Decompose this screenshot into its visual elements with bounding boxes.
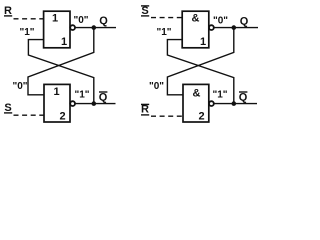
junction dot on Q wire (right latch) bbox=[232, 25, 237, 30]
junction dot on Q-bar wire (right latch) bbox=[232, 101, 237, 106]
wire: feedback Q to gate 2 input (right latch) bbox=[167, 28, 233, 95]
svg-text:"1": "1" bbox=[19, 27, 34, 38]
junction dot on Q wire (left latch) bbox=[92, 25, 97, 30]
wire: feedback Q-bar to gate 1 input (right latch) bbox=[167, 40, 233, 104]
svg-text:1: 1 bbox=[53, 86, 59, 98]
svg-text:S: S bbox=[4, 102, 11, 114]
NOR gate 1 box (left latch, top) bbox=[44, 11, 70, 48]
svg-text:"1": "1" bbox=[156, 27, 171, 38]
svg-text:Q: Q bbox=[99, 91, 108, 103]
svg-text:Q: Q bbox=[240, 15, 249, 27]
svg-text:1: 1 bbox=[52, 12, 58, 24]
svg-text:"1": "1" bbox=[212, 90, 227, 101]
svg-text:&: & bbox=[192, 12, 200, 24]
NOR gate 2 box (left latch, bottom) bbox=[44, 84, 70, 122]
inverter bubble, gate 1 output (right latch) bbox=[209, 25, 214, 30]
NAND gate 2 box (right latch, bottom) bbox=[183, 84, 209, 122]
NAND gate 1 box (right latch, top) bbox=[182, 11, 209, 48]
inverter bubble, gate 2 output (right latch) bbox=[209, 101, 214, 106]
junction dot on Q-bar wire (left latch) bbox=[92, 101, 97, 106]
wire: feedback Q-bar to gate 1 input (left latch) bbox=[28, 40, 93, 104]
wire: R input (dashed) to gate 1 bbox=[14, 18, 44, 20]
inverter bubble, gate 1 output (left latch) bbox=[70, 25, 75, 30]
wire: Q-bar output (right latch) bbox=[214, 103, 257, 105]
wire: feedback Q to gate 2 input (left latch) bbox=[28, 28, 94, 95]
inverter bubble, gate 2 output (left latch) bbox=[70, 101, 75, 106]
svg-text:Q: Q bbox=[239, 91, 248, 103]
wire: S-bar input (dashed) to right gate 1 bbox=[151, 17, 182, 19]
svg-text:2: 2 bbox=[198, 111, 204, 123]
wire: S input (dashed) to gate 2 bbox=[14, 114, 45, 116]
svg-text:"0": "0" bbox=[149, 81, 164, 92]
svg-text:1: 1 bbox=[61, 36, 67, 48]
svg-text:"1": "1" bbox=[74, 90, 89, 101]
svg-text:1: 1 bbox=[200, 36, 206, 48]
svg-text:2: 2 bbox=[59, 111, 65, 123]
wire: R-bar input (dashed) to right gate 2 bbox=[151, 115, 183, 117]
svg-text:&: & bbox=[193, 87, 201, 99]
svg-text:"0": "0" bbox=[73, 15, 88, 26]
wire: Q output (left latch) bbox=[75, 27, 116, 29]
svg-text:Q: Q bbox=[99, 15, 108, 27]
wire: Q output (right latch) bbox=[214, 27, 258, 29]
svg-text:"0": "0" bbox=[213, 16, 228, 27]
svg-text:"0": "0" bbox=[12, 81, 27, 92]
svg-text:R: R bbox=[141, 104, 149, 116]
wire: Q-bar output (left latch) bbox=[75, 103, 116, 105]
